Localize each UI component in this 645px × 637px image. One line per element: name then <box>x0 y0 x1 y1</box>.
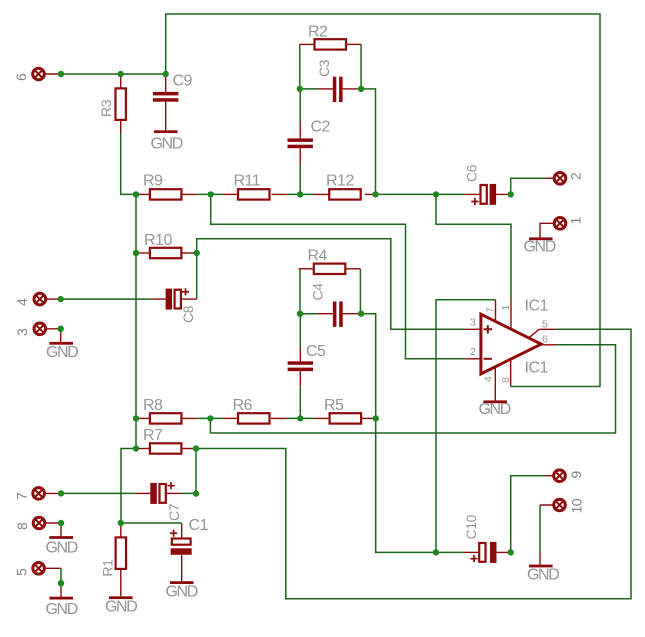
pin R12 right <box>365 193 376 195</box>
capacitor C3 <box>316 59 343 102</box>
svg-text:R12: R12 <box>326 173 354 190</box>
pin R3 bottom <box>120 120 122 134</box>
wire net R4 left drop to C4 node <box>299 269 301 314</box>
ground under C1 <box>166 581 198 600</box>
polarized capacitor C8 <box>166 288 196 323</box>
pin C9 top <box>165 74 167 92</box>
junction pad4 lead <box>58 296 64 302</box>
wire net pad5 stem <box>60 568 62 583</box>
capacitor C4 <box>310 283 343 327</box>
wire net IN1: pad6 node to C9/R3 top rail <box>61 73 166 75</box>
junction R7 right node <box>193 445 199 451</box>
svg-text:C1: C1 <box>189 517 209 534</box>
svg-text:3: 3 <box>470 317 476 329</box>
junction C4 right node <box>358 311 364 317</box>
pin C10 left <box>463 551 478 553</box>
pin lead pad8 to GND <box>45 523 62 536</box>
pin R11 right <box>272 193 287 195</box>
wire net V+ rail to C10 <box>436 551 463 553</box>
wire net R7 left to R1 top <box>121 449 136 524</box>
wire net R10 right to pin3 of IC1 <box>197 239 465 329</box>
wire net C2 bottom stub <box>299 166 301 195</box>
svg-text:C10: C10 <box>463 514 479 539</box>
pin C5 bottom <box>299 371 301 386</box>
junction R7 left node <box>133 445 139 451</box>
ground under pad5 <box>46 597 78 618</box>
wire net R5 right node down to V+ rail <box>376 418 436 552</box>
pin C6 right <box>496 193 511 195</box>
ground under pad10 <box>527 565 559 584</box>
svg-text:5: 5 <box>542 319 548 331</box>
pin IC1 pin6 (OUT) <box>541 344 556 346</box>
wire net C7 right stub <box>182 492 197 494</box>
wire net R1 node to C1 <box>121 522 182 524</box>
pin lead pad9 <box>545 475 555 477</box>
wire net C4/R4 node to R5 right node <box>361 314 376 419</box>
wire net pad10 stem <box>539 505 541 551</box>
pin R1 bottom to GND <box>120 569 122 596</box>
pin C1 top <box>181 523 183 537</box>
pin C4 right <box>343 313 359 315</box>
svg-text:GND: GND <box>527 567 559 584</box>
pad 1 <box>554 217 583 230</box>
pin C8 left <box>151 298 166 300</box>
pin R9 right <box>181 193 196 195</box>
wire net C10 right up to pad9 <box>511 476 545 553</box>
junction pad5 gnd node <box>58 580 64 586</box>
svg-text:7: 7 <box>485 307 497 313</box>
ground under R1 <box>105 596 137 615</box>
pin IC1 pin3 (+IN) <box>465 328 481 330</box>
svg-text:R10: R10 <box>144 232 172 249</box>
junction pad7 lead <box>58 490 64 496</box>
svg-text:GND: GND <box>479 401 511 418</box>
pin C3 right <box>343 88 358 90</box>
pin lead pad4 <box>45 298 61 300</box>
capacitor C5 <box>288 343 326 371</box>
pin R11 left <box>223 193 238 195</box>
junction C3 right node <box>358 86 364 92</box>
junction R6/R5/C5 node <box>297 415 303 421</box>
junction C6 right node <box>508 191 514 197</box>
resistor R11 <box>234 173 270 200</box>
wire net R11-R12 segment <box>287 193 314 195</box>
wire net C5 top stub <box>299 314 301 347</box>
pin lead pad7 <box>44 492 61 494</box>
svg-text:GND: GND <box>166 584 198 601</box>
wire net C4 right stub <box>358 313 361 315</box>
svg-text:R4: R4 <box>308 248 328 265</box>
pin R1 top <box>120 523 122 537</box>
wire net R4 right drop to C4 node <box>359 269 361 314</box>
svg-text:4: 4 <box>14 298 30 306</box>
pad 4 <box>14 293 46 306</box>
pin R4 left <box>299 268 314 270</box>
ground under C9 <box>151 130 183 152</box>
svg-text:3: 3 <box>14 328 30 336</box>
wire net C3 right stub <box>357 88 361 90</box>
svg-text:6: 6 <box>13 73 29 81</box>
pin lead pad3 to GND <box>45 329 61 342</box>
svg-text:GND: GND <box>46 601 78 618</box>
pin R5 left <box>315 417 330 419</box>
polarized capacitor C7 <box>150 482 182 521</box>
svg-text:GND: GND <box>46 540 78 557</box>
wire net R2 left drop to C3 node <box>299 44 301 89</box>
junction C4 left node <box>297 311 303 317</box>
wire net R8-R6 segment <box>197 417 224 419</box>
pin R8 left <box>136 417 150 419</box>
junction R10 left node <box>133 250 139 256</box>
pin lead pad10 to GND <box>540 505 555 565</box>
ground under pad1 <box>524 237 556 255</box>
junction pad6 lead <box>58 71 64 77</box>
pad 3 <box>14 323 46 336</box>
svg-text:R11: R11 <box>234 173 261 190</box>
svg-text:8: 8 <box>500 377 512 383</box>
svg-text:8: 8 <box>14 522 30 530</box>
pin R7 left <box>136 448 150 450</box>
wire net pin5 loop R7 to IC1 pin5 <box>196 329 631 598</box>
pin lead pad6 <box>44 73 62 75</box>
pin C5 top <box>299 346 301 361</box>
svg-text:C4: C4 <box>310 283 326 301</box>
capacitor C9 <box>153 73 193 102</box>
junction R3 top node <box>118 71 124 77</box>
svg-text:R2: R2 <box>308 24 328 41</box>
pin R8 right <box>181 417 196 419</box>
svg-text:C8: C8 <box>180 305 196 323</box>
pad 6 <box>13 68 44 81</box>
wire net C6 out up to pad2 <box>511 178 545 194</box>
capacitor C2 <box>288 119 331 149</box>
wire net pad8 stem <box>60 522 62 524</box>
pin R4 right <box>345 268 360 270</box>
junction pad3 lead <box>58 326 64 332</box>
svg-text:C3: C3 <box>316 59 332 77</box>
pin R12 left <box>314 193 329 195</box>
polarized capacitor C1 <box>170 517 209 555</box>
pin C3 left <box>318 88 333 90</box>
svg-text:2: 2 <box>568 172 584 180</box>
pad 7 <box>14 488 45 500</box>
svg-text:GND: GND <box>151 136 183 153</box>
wire net R6-R5 segment <box>286 417 315 419</box>
wire net C2 top stub <box>299 89 301 121</box>
polarized capacitor C10 <box>463 514 497 562</box>
pad 10 <box>554 498 585 513</box>
ground under pad8 <box>46 536 78 556</box>
pin C4 left <box>317 313 333 315</box>
pin C8 right <box>182 298 197 300</box>
pin lead pad2 <box>545 177 555 179</box>
pin C7 left <box>135 492 150 494</box>
pin C2 top <box>299 121 301 139</box>
resistor R6 <box>233 397 270 424</box>
junction R9/R11 node <box>208 191 214 197</box>
resistor R8 <box>143 397 181 424</box>
svg-text:GND: GND <box>524 239 556 256</box>
svg-text:R7: R7 <box>143 427 163 444</box>
wire net C4 left stub <box>300 313 317 315</box>
pin C10 right <box>497 551 511 553</box>
svg-text:10: 10 <box>569 498 585 513</box>
wire net C8 plus up to R10 node <box>196 253 198 299</box>
junction R5 right node <box>373 415 379 421</box>
pin R2 left <box>300 43 315 45</box>
svg-text:R6: R6 <box>233 397 253 414</box>
wire net C5 bottom stub <box>299 386 301 418</box>
junction C10 right node <box>508 549 514 555</box>
svg-text:IC1: IC1 <box>525 360 549 377</box>
wire net C3 left stub <box>300 88 318 90</box>
svg-text:C5: C5 <box>306 343 326 360</box>
wire net from R3 bottom to R9 left <box>121 134 136 195</box>
pin R7 right <box>181 448 196 450</box>
pin R10 left <box>136 252 150 254</box>
junction R8 left node <box>133 415 139 421</box>
junction pad8 lead <box>58 520 64 526</box>
svg-text:GND: GND <box>105 599 137 616</box>
pin IC1 pin5 with tie to output <box>528 329 556 338</box>
pin R6 right <box>271 417 286 419</box>
junction R8/R6 node <box>207 415 213 421</box>
pin IC1 pin7 (V+) <box>495 300 497 322</box>
pin R6 left <box>223 417 238 419</box>
resistor R5 <box>324 397 361 424</box>
pin C9 bottom to GND <box>165 102 167 131</box>
pin IC1 pin2 (-IN) <box>465 358 481 360</box>
pin R9 left <box>136 193 150 195</box>
svg-text:6: 6 <box>542 333 548 345</box>
svg-text:R3: R3 <box>98 99 114 117</box>
pin C2 bottom <box>299 148 301 165</box>
junction V+ rail C10 node <box>433 549 439 555</box>
resistor R1 <box>100 537 127 576</box>
svg-text:IC1: IC1 <box>525 298 549 315</box>
pin lead pad1 to GND <box>540 223 555 237</box>
wire net node B down-right to pin1 of IC1 <box>436 194 511 297</box>
wire net pad4 to C8 <box>61 298 151 300</box>
wire net R9-R11 segment <box>197 193 224 195</box>
wire net R7 right down to C7 <box>195 449 197 494</box>
wire net R9/R11 node to pin2 of IC1 <box>211 194 465 358</box>
svg-text:C6: C6 <box>464 164 480 182</box>
svg-text:R5: R5 <box>324 397 344 414</box>
pin C7 right <box>167 492 182 494</box>
junction node B C6 left <box>433 191 439 197</box>
junction R1 top node <box>118 520 124 526</box>
resistor R2 <box>308 24 346 50</box>
wire net IN1 loop: up over the top to pin 8 of IC1 <box>166 14 600 387</box>
pin pad5 GND stem <box>60 583 62 597</box>
pin IC1 pin1 <box>510 297 512 329</box>
wire net left rail R9-R10-R8 <box>135 194 137 418</box>
pin C1 bottom to GND <box>181 555 183 581</box>
pin R10 right <box>181 252 196 254</box>
ground under pad3 <box>46 342 78 361</box>
junction R9 left node <box>133 191 139 197</box>
svg-text:R8: R8 <box>143 397 163 414</box>
pin C6 left <box>464 193 479 195</box>
wire net pin6 feedback loop to R8/R6 node <box>210 345 615 433</box>
resistor R3 <box>98 88 126 120</box>
pad 2 <box>554 172 583 184</box>
op-amp IC1 <box>481 314 541 374</box>
junction R10 right node <box>194 250 200 256</box>
pin lead pad5 <box>44 567 61 569</box>
svg-text:2: 2 <box>470 346 476 358</box>
resistor R4 <box>308 248 346 275</box>
svg-text:R1: R1 <box>100 559 116 577</box>
junction R12 right node <box>372 191 378 197</box>
svg-text:R9: R9 <box>143 173 163 190</box>
svg-text:9: 9 <box>568 471 584 479</box>
svg-text:4: 4 <box>483 376 495 382</box>
wire net R12-C6 segment <box>376 193 465 195</box>
svg-text:GND: GND <box>46 344 78 361</box>
pin R2 right <box>346 43 361 45</box>
polarized capacitor C6 <box>464 164 497 205</box>
pad 5 <box>14 563 45 577</box>
svg-text:5: 5 <box>14 568 30 576</box>
junction R11/R12/C2 node <box>297 191 303 197</box>
ground under IC1 pin4 <box>479 400 511 418</box>
svg-text:7: 7 <box>14 492 30 500</box>
svg-text:C2: C2 <box>311 119 331 136</box>
pin IC1 pin8 <box>510 359 512 386</box>
junction C7 right node <box>193 490 199 496</box>
resistor R9 <box>143 173 181 200</box>
pin R5 right <box>360 417 375 419</box>
pin IC1 pin4 (V-) to GND <box>494 367 496 401</box>
resistor R12 <box>326 173 361 200</box>
wire net R2 right drop to C3 node <box>360 44 362 89</box>
wire net pin7 of IC1 down to V+ rail <box>436 300 496 553</box>
resistor R10 <box>144 232 181 258</box>
svg-text:1: 1 <box>568 217 584 225</box>
svg-text:1: 1 <box>500 305 512 311</box>
wire net pad7 to C7 <box>61 492 135 494</box>
junction C9 top node <box>163 71 169 77</box>
wire net C3/R2 node to R12 right node <box>361 89 375 194</box>
junction C3 left node <box>297 86 303 92</box>
svg-text:C7: C7 <box>166 503 182 521</box>
pad 8 <box>14 517 45 530</box>
svg-text:C9: C9 <box>173 73 193 90</box>
pad 9 <box>554 470 584 482</box>
resistor R7 <box>143 427 181 454</box>
wire net R7-R8 left rail <box>135 418 137 448</box>
pin R3 top <box>120 74 122 88</box>
